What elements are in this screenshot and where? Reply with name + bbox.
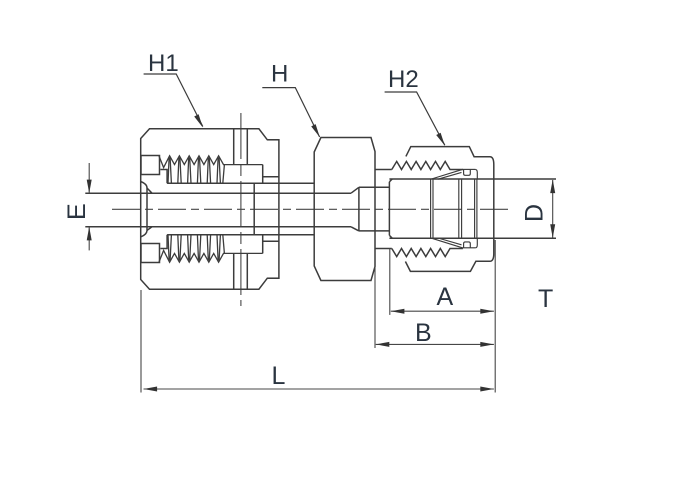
- svg-text:B: B: [415, 319, 432, 347]
- svg-text:A: A: [437, 283, 454, 311]
- svg-text:L: L: [272, 362, 286, 390]
- svg-text:H2: H2: [388, 66, 419, 93]
- svg-text:T: T: [538, 285, 553, 313]
- svg-text:D: D: [521, 204, 549, 222]
- svg-text:E: E: [63, 203, 91, 220]
- svg-text:H: H: [271, 61, 288, 88]
- svg-text:H1: H1: [148, 50, 179, 77]
